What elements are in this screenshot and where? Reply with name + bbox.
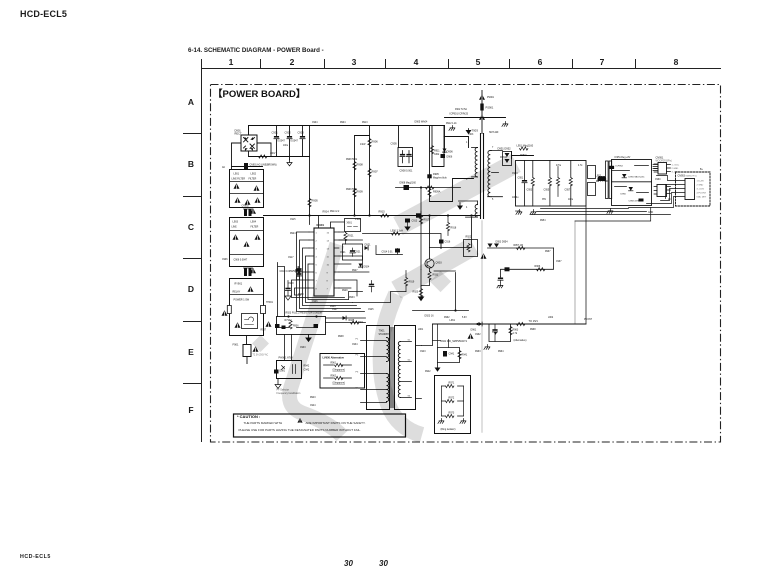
- resistor R906: [368, 139, 371, 147]
- resistor R909: [353, 189, 356, 197]
- resistor R972: [442, 397, 464, 403]
- wires in block: [612, 166, 649, 193]
- svg-text:R938: R938: [338, 336, 344, 338]
- svg-text:R937: R937: [261, 330, 267, 332]
- capacitor C908: [406, 151, 411, 163]
- svg-text:AC: AC: [222, 166, 226, 169]
- capacitor C901: [274, 126, 279, 157]
- svg-text:5: 5: [476, 57, 481, 67]
- svg-text:C943: C943: [420, 351, 426, 353]
- svg-text:HCD-ECL5: HCD-ECL5: [20, 9, 67, 19]
- svg-text:GND: GND: [648, 212, 653, 214]
- svg-text:T903: T903: [468, 134, 474, 136]
- board dash-dot border: [211, 85, 721, 443]
- svg-text:PCONT: PCONT: [584, 319, 593, 321]
- svg-text:L904: L904: [251, 221, 257, 224]
- svg-text:PS901: PS901: [487, 97, 495, 99]
- inductor L952: [597, 176, 608, 181]
- svg-text:470u: 470u: [556, 165, 562, 167]
- svg-text:C910 0.0056/50V: C910 0.0056/50V: [280, 271, 298, 273]
- T901 core: [391, 328, 393, 408]
- junction dot: [368, 214, 370, 216]
- svg-text:FILTER: FILTER: [249, 179, 257, 181]
- svg-text:D953 D954: D953 D954: [496, 241, 509, 244]
- info row 2: [324, 376, 352, 385]
- column ruler line: [201, 68, 721, 70]
- snubber sub rect: [398, 148, 413, 167]
- svg-text:C918: C918: [288, 283, 294, 285]
- svg-text:HCD-ECL5: HCD-ECL5: [20, 554, 51, 560]
- wire y233 row: [363, 234, 442, 249]
- resistor R941: [458, 351, 461, 359]
- svg-text:D963: D963: [475, 351, 481, 353]
- feedback wire y187: [396, 188, 461, 270]
- T901 secondary winding: [398, 342, 400, 398]
- IC pin names: [316, 233, 330, 291]
- diode D962 blob: [494, 332, 498, 335]
- svg-text:F: F: [188, 405, 193, 415]
- capacitor C903: [300, 126, 305, 157]
- svg-text:R908 560k: R908 560k: [346, 159, 358, 161]
- svg-text:C921: C921: [355, 251, 362, 254]
- resistor R907: [368, 169, 371, 177]
- wire vertical x369: [369, 126, 371, 216]
- svg-text:C906 0.0047: C906 0.0047: [234, 259, 248, 262]
- wire to photocoupler: [285, 335, 292, 361]
- warning triangle: [235, 197, 241, 202]
- info row 1: [324, 363, 352, 372]
- pin hatch CN951: [653, 165, 658, 171]
- ground arrow mid: [305, 335, 312, 343]
- svg-text:R933: R933: [349, 297, 355, 299]
- svg-text:D981: D981: [280, 371, 286, 373]
- svg-text:L903: L903: [233, 221, 239, 224]
- warning triangle: [233, 234, 239, 239]
- watermark j stroke: [290, 244, 342, 436]
- svg-text:R964: R964: [498, 351, 504, 353]
- stub right: [261, 306, 266, 314]
- svg-text:1 +VCC: 1 +VCC: [672, 165, 680, 167]
- wire T901 to rail: [422, 324, 433, 346]
- ground arrow: [435, 363, 441, 372]
- svg-text:R962: R962: [331, 376, 337, 378]
- svg-text:D961: D961: [471, 329, 477, 332]
- svg-text:T901: T901: [358, 322, 364, 324]
- warning triangle: [222, 310, 228, 315]
- gray drop wire: [574, 221, 576, 324]
- sub rect right of IC: [343, 244, 363, 260]
- junction dot: [428, 214, 430, 216]
- capacitor C958: [639, 199, 644, 202]
- svg-text:A: A: [188, 97, 194, 107]
- pin labels right: [697, 181, 707, 199]
- resistor R971: [442, 382, 464, 388]
- column numbers: [229, 57, 679, 67]
- black blob D936: [314, 324, 319, 328]
- svg-text:5.6V: 5.6V: [462, 317, 467, 319]
- diode D955 blob: [505, 267, 510, 271]
- svg-text:T2.5A 250V AC: T2.5A 250V AC: [253, 354, 269, 357]
- bottom bus wire: [264, 215, 481, 217]
- warning triangle: [255, 197, 261, 202]
- wire vertical x429: [429, 126, 431, 202]
- diode D908: [404, 185, 410, 190]
- primary winding upper: [472, 148, 478, 177]
- svg-text:D951F: D951F: [520, 155, 527, 157]
- line filter block 2: [230, 218, 264, 267]
- fuse F901: [243, 345, 251, 364]
- connector blob top: [244, 163, 248, 170]
- caution box: [234, 414, 406, 437]
- warning triangle: [250, 208, 256, 213]
- rectifier diode pair box: [503, 152, 512, 166]
- svg-text:2: 2: [290, 57, 295, 67]
- svg-text:4 PCONT: 4 PCONT: [697, 193, 707, 195]
- warning triangle: [479, 94, 485, 99]
- isolation line: [481, 221, 483, 433]
- output block rect: [516, 161, 587, 207]
- svg-text:PH901 ATW: PH901 ATW: [279, 356, 294, 360]
- svg-text:R935: R935: [349, 319, 355, 322]
- svg-text:L901: L901: [234, 173, 240, 176]
- capacitor C913: [404, 219, 410, 231]
- relay block RY901: [230, 279, 264, 336]
- svg-text:400V: 400V: [270, 153, 276, 155]
- resistor R917: [419, 216, 429, 224]
- resistor R911: [430, 146, 433, 154]
- svg-text:R967: R967: [545, 251, 551, 253]
- ground arrow aux: [457, 203, 463, 210]
- svg-text:F901: F901: [233, 343, 239, 347]
- standby rail wire: [433, 323, 587, 325]
- wire y220 horizontal: [575, 208, 651, 222]
- black blob C936: [282, 326, 286, 330]
- svg-text:POWER 1 SW: POWER 1 SW: [234, 299, 250, 302]
- diode D906: [443, 149, 447, 153]
- svg-text:D906: D906: [447, 156, 453, 159]
- T901 pin labels: [356, 339, 359, 390]
- warning triangle: [253, 346, 259, 351]
- diode D905: [427, 174, 431, 178]
- SCHEMATIC CONTENT: [222, 91, 711, 438]
- svg-text:0.0047: 0.0047: [291, 140, 299, 143]
- svg-text:6-14. SCHEMATIC DIAGRAM - PO: 6-14. SCHEMATIC DIAGRAM - POWER Board -: [188, 47, 324, 54]
- svg-text:C905: C905: [391, 142, 398, 146]
- svg-text:R914: R914: [323, 210, 330, 214]
- svg-text:R921: R921: [348, 235, 355, 238]
- watermark diamond 1: [252, 335, 269, 352]
- info box LV950: [320, 354, 365, 389]
- capacitor C916: [439, 240, 444, 249]
- svg-text:(Ring isolator): (Ring isolator): [441, 428, 456, 431]
- chassis ground: [484, 345, 490, 350]
- svg-text:4: 4: [414, 57, 419, 67]
- wire x309 into IC area: [309, 216, 311, 225]
- watermark band 2: [396, 246, 474, 290]
- warning triangle: [245, 199, 251, 204]
- svg-text:(Singapore): (Singapore): [333, 382, 346, 385]
- pin labels: [672, 165, 680, 174]
- svg-text:F902 T2.5A: F902 T2.5A: [455, 108, 467, 111]
- svg-text:R943: R943: [310, 397, 316, 399]
- svg-text:ICP901 ICP/N25: ICP901 ICP/N25: [450, 113, 469, 116]
- watermark c arc: [381, 294, 422, 435]
- capacitor C941 blob: [443, 351, 447, 357]
- svg-text:R966: R966: [535, 265, 541, 268]
- svg-text:X901: X901: [347, 223, 353, 225]
- svg-text:RELAY: RELAY: [233, 291, 241, 294]
- twin small boxes: [588, 166, 596, 196]
- diode D907 on bus: [416, 212, 421, 220]
- watermark overlay: [252, 163, 516, 436]
- svg-text:LINE: LINE: [232, 227, 238, 229]
- warning triangle: [266, 321, 272, 326]
- svg-text:L961: L961: [450, 319, 456, 322]
- feedback vertical arrow end: [418, 270, 425, 302]
- pin wires into connector: [676, 181, 686, 197]
- svg-text:1 D+8V: 1 D+8V: [697, 181, 705, 183]
- thermistor stub left: [227, 306, 231, 314]
- dashed connector box CN953: [676, 172, 711, 206]
- svg-text:SMT-429: SMT-429: [489, 132, 499, 134]
- side wires in box: [442, 386, 464, 416]
- svg-text:E: E: [188, 347, 194, 357]
- wire to primary coil: [444, 137, 469, 148]
- wires right of IC mesh: [339, 232, 369, 296]
- capacitor C957: [569, 161, 572, 207]
- warning triangle: [254, 185, 260, 190]
- capacitor C924: [369, 281, 374, 292]
- svg-text:B: B: [188, 159, 194, 169]
- chassis ground: [438, 419, 444, 424]
- svg-text:R928: R928: [342, 290, 348, 292]
- snubber C914 circuit: [376, 246, 403, 255]
- svg-text:R927: R927: [352, 270, 358, 272]
- svg-text:IC951 Reg +8V: IC951 Reg +8V: [615, 157, 631, 159]
- svg-text:R957 1W: R957 1W: [514, 245, 524, 247]
- svg-text:L962: L962: [548, 317, 554, 319]
- svg-text:5 AC DET: 5 AC DET: [697, 196, 707, 199]
- wire vertical x444: [444, 126, 446, 153]
- resistor R916: [426, 186, 434, 189]
- resistor R957: [517, 246, 525, 249]
- diode D921: [365, 246, 369, 250]
- resistor R936: [289, 321, 299, 329]
- resistor R909A: [428, 189, 431, 197]
- IC pins left: [309, 232, 314, 288]
- connector CN951: [658, 163, 671, 175]
- diode D924: [359, 264, 363, 268]
- svg-text:8: 8: [674, 57, 679, 67]
- svg-text:RECT: RECT: [235, 132, 242, 136]
- wire bridge right: [257, 143, 271, 157]
- resistor R963: [509, 327, 512, 335]
- svg-text:R922: R922: [466, 236, 472, 239]
- svg-text:WOOFER(9Pin): WOOFER(9Pin): [656, 161, 673, 163]
- junction dot: [454, 309, 456, 311]
- resistor inline: [259, 155, 267, 158]
- svg-text:R908: R908: [357, 163, 364, 167]
- capacitor C907: [400, 151, 405, 163]
- wire vertical x398 with sub box: [398, 126, 400, 148]
- IC pins right: [334, 232, 339, 288]
- diode D961: [476, 322, 482, 326]
- junction dot: [353, 214, 355, 216]
- svg-text:330k: 330k: [434, 153, 440, 156]
- osc sub box: [345, 219, 361, 232]
- capacitor C912 pair: [296, 267, 301, 276]
- svg-text:CN951: CN951: [656, 157, 664, 160]
- svg-text:4.7k: 4.7k: [513, 332, 518, 335]
- warning triangle: [479, 114, 485, 119]
- nested loop wires: [297, 232, 365, 312]
- pin blob left: [275, 324, 280, 328]
- wire horizontal y117: [445, 117, 506, 119]
- svg-text:R906: R906: [372, 140, 379, 144]
- resistor R905: [308, 199, 311, 207]
- svg-text:C960: C960: [655, 179, 661, 181]
- svg-text:D955 SB07-03C: D955 SB07-03C: [629, 177, 645, 179]
- svg-text:R973: R973: [449, 412, 455, 415]
- warning triangle: [255, 234, 261, 239]
- chassis ground: [530, 210, 536, 215]
- svg-text:3: 3: [352, 57, 357, 67]
- T901 winding taps: [367, 341, 387, 403]
- resistor R908: [353, 162, 356, 170]
- svg-text:C902: C902: [285, 131, 292, 135]
- svg-text:C934: C934: [352, 344, 358, 346]
- top right standby wires: [501, 248, 554, 276]
- chassis ground: [460, 419, 466, 424]
- svg-text:R907: R907: [372, 170, 379, 174]
- regulator loop: [489, 324, 511, 342]
- warning triangle: [481, 253, 487, 258]
- resistor L906: [392, 232, 400, 235]
- svg-text:CN953: CN953: [678, 175, 686, 178]
- svg-text:R929: R929: [330, 306, 336, 308]
- fuse ICP952: [609, 166, 614, 169]
- svg-text:C967: C967: [556, 261, 562, 263]
- svg-text:C958 47/35V: C958 47/35V: [629, 201, 642, 203]
- bundle wires CN953: [629, 176, 676, 208]
- bridge rectifier D901: [241, 135, 257, 151]
- svg-text:L902: L902: [251, 173, 257, 176]
- relay circuit box RY902: [277, 317, 326, 335]
- wire risers to bus: [278, 263, 285, 317]
- svg-text:Mag/res blok: Mag/res blok: [433, 177, 447, 180]
- svg-text:(Singapore): (Singapore): [333, 369, 346, 372]
- wire bridge bottom: [248, 151, 250, 157]
- inner connector body: [685, 179, 695, 200]
- svg-text:PS901: PS901: [486, 106, 494, 110]
- svg-text:D951 D952: D951 D952: [498, 147, 512, 151]
- svg-text:1000u: 1000u: [512, 197, 519, 199]
- capacitor C961: [492, 324, 497, 341]
- svg-text:35V: 35V: [542, 199, 547, 201]
- resistor R920: [419, 289, 422, 297]
- svg-text:2 GND: 2 GND: [697, 185, 704, 187]
- svg-text:C927: C927: [332, 309, 338, 311]
- T901 primary winding lower: [387, 374, 389, 402]
- primary winding lower: [459, 201, 478, 217]
- row ruler line: [201, 68, 203, 442]
- T901 pin stubs left: [361, 341, 367, 403]
- pin blob left: [274, 370, 279, 374]
- svg-text:R905: R905: [312, 199, 319, 203]
- component row right of IC: resistor R921: [339, 229, 347, 245]
- svg-text:R971: R971: [449, 382, 455, 385]
- svg-text:THE PARTS MARKED WITH: THE PARTS MARKED WITH: [244, 421, 283, 425]
- diode D956: [629, 187, 634, 191]
- chassis ground: [516, 210, 522, 215]
- diode D953 pair: [488, 244, 500, 248]
- transistor Q903: [425, 259, 434, 268]
- connector blobs: [244, 268, 253, 276]
- svg-text:C916: C916: [445, 241, 451, 244]
- svg-text:R954: R954: [540, 220, 546, 222]
- svg-text:D962: D962: [444, 317, 450, 319]
- diode D906: [441, 154, 446, 158]
- IC IC901 body: [314, 228, 334, 296]
- svg-text:100u: 100u: [283, 145, 289, 147]
- svg-text:ICP952: ICP952: [616, 166, 624, 168]
- svg-text:C957: C957: [565, 189, 571, 192]
- svg-text:CN901 AC-LINE(BROWN): CN901 AC-LINE(BROWN): [250, 164, 277, 167]
- junction dot: [470, 214, 472, 216]
- transformer T901 secondary cell: [395, 326, 416, 410]
- wire box1 top feed: [232, 167, 263, 171]
- svg-text:L951 Mbq2160: L951 Mbq2160: [517, 145, 534, 148]
- warning triangle: [235, 322, 241, 327]
- svg-text:R913: R913: [362, 122, 368, 124]
- warning triangle: [244, 241, 250, 246]
- harness wires to connectors: [654, 164, 658, 194]
- relay coil sub box: [242, 314, 258, 329]
- fuse path above core: [481, 91, 483, 134]
- drain wire from transformer: [430, 218, 472, 248]
- svg-text:R912 1.2k: R912 1.2k: [446, 123, 457, 125]
- svg-text:C951: C951: [518, 177, 524, 180]
- svg-text:C: C: [188, 222, 194, 232]
- svg-text:C903: C903: [298, 131, 305, 135]
- svg-text:R909 560k: R909 560k: [346, 189, 358, 191]
- svg-text:C962: C962: [475, 334, 481, 336]
- svg-text:C901: C901: [272, 131, 279, 135]
- column ruler ticks: [202, 59, 636, 68]
- svg-text:30: 30: [379, 559, 388, 568]
- source resistor R931: [421, 268, 431, 288]
- svg-text:C925: C925: [368, 309, 374, 311]
- svg-text:7: 7: [600, 57, 605, 67]
- wire IC top to bus: [319, 216, 355, 228]
- junction dot: [447, 214, 449, 216]
- capacitor C909: [295, 267, 300, 280]
- svg-text:T903: T903: [472, 129, 479, 133]
- sub loop rect: [438, 324, 460, 363]
- transformer T901 primary cell: [367, 326, 390, 410]
- capacitor C951: [522, 161, 527, 207]
- svg-text:LINE FILTER: LINE FILTER: [232, 179, 246, 181]
- wire vertical x354: [355, 136, 370, 216]
- resistor R918: [446, 216, 449, 236]
- svg-text:30: 30: [344, 559, 353, 568]
- svg-text:C954: C954: [515, 211, 521, 213]
- svg-text:R961: R961: [331, 363, 337, 365]
- svg-text:TO 15/1: TO 15/1: [529, 319, 539, 323]
- junction dot: [308, 214, 310, 216]
- warning triangle: [234, 183, 240, 188]
- capacitor C902: [287, 126, 292, 157]
